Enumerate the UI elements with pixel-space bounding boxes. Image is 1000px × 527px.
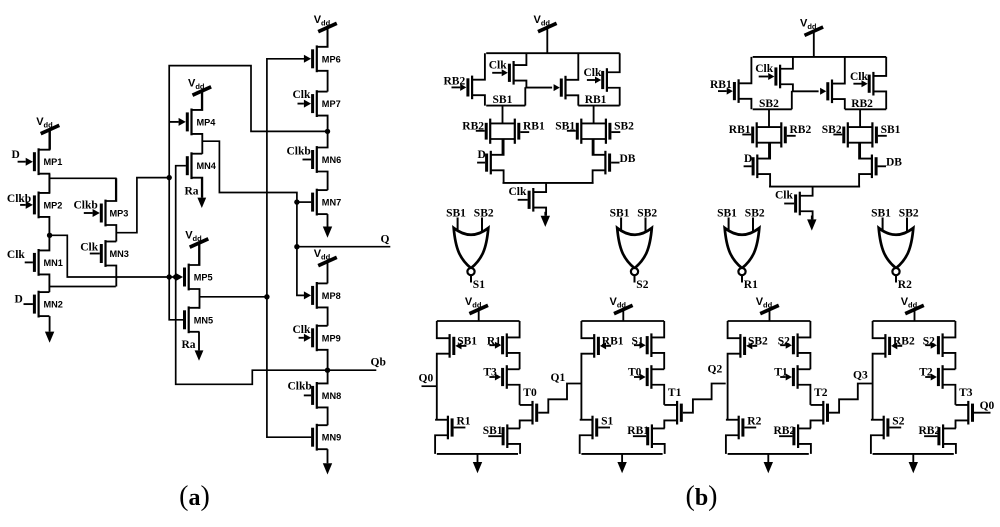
svg-text:Clkb: Clkb	[287, 146, 311, 158]
transistor MN2	[15, 291, 63, 318]
wire staircase to next stage	[829, 384, 872, 413]
svg-text:MN6: MN6	[322, 155, 341, 165]
wire output Q	[297, 246, 390, 248]
svg-text:SB2: SB2	[745, 207, 765, 219]
svg-text:SB1: SB1	[881, 124, 901, 136]
svg-text:S1: S1	[632, 335, 644, 347]
svg-text:MN2: MN2	[44, 300, 63, 310]
transistor RB1 (bottom-right NMOS)	[627, 424, 664, 454]
transistor S2 (bottom-left NMOS)	[871, 415, 905, 454]
svg-text:Q3: Q3	[853, 370, 868, 382]
transistor Clk tail NMOS	[509, 183, 547, 216]
svg-text:RB1: RB1	[729, 124, 751, 136]
transistor MP6	[304, 28, 341, 92]
wire cross gate lead	[792, 90, 819, 92]
svg-text:SB1: SB1	[457, 335, 477, 347]
junction bus2 / MP5 gate line	[173, 274, 178, 279]
transistor S2 (right PMOS)	[923, 321, 956, 369]
transistor RB2 (bottom-right NMOS)	[774, 424, 811, 454]
svg-text:T1: T1	[774, 367, 788, 379]
junction MP2/MN1 node	[47, 233, 52, 238]
transistor MP2	[7, 174, 63, 235]
svg-text:Clkb: Clkb	[7, 193, 31, 205]
svg-text:SB2: SB2	[822, 124, 842, 136]
NOR gate 3 (R1)	[717, 207, 765, 291]
transistor SB1 (left PMOS)	[437, 321, 477, 420]
svg-text:D: D	[12, 149, 20, 161]
transistor T2 (pass NMOS)	[811, 387, 830, 428]
wire bus2 vertical to Qb line	[176, 166, 377, 385]
transistor pair RB1/RB2	[729, 122, 812, 147]
wire stage top rail	[873, 320, 956, 322]
svg-text:SB1: SB1	[483, 425, 503, 437]
svg-text:RB1: RB1	[585, 94, 607, 106]
svg-text:DB: DB	[620, 153, 636, 165]
svg-text:MP8: MP8	[322, 291, 341, 301]
wire stage bottom rail	[873, 453, 954, 455]
svg-text:SB2: SB2	[748, 335, 768, 347]
wire latch top rail	[486, 52, 620, 54]
transistor D input NMOS	[477, 139, 504, 183]
wire Q0 input stub	[422, 385, 437, 387]
wire node RB2 line	[845, 98, 886, 110]
svg-text:Clk: Clk	[293, 89, 312, 101]
wire stage top rail	[437, 320, 520, 322]
svg-text:MN5: MN5	[194, 315, 213, 325]
svg-text:Clk: Clk	[80, 242, 99, 254]
ground below stage	[473, 454, 482, 473]
Ra output arrow below MN4	[185, 178, 207, 208]
svg-text:D: D	[15, 294, 23, 306]
junction MP5/MN5 node on bus3	[264, 294, 269, 299]
wire latch bottom rail	[503, 182, 594, 184]
power Vdd at latch	[800, 18, 823, 57]
transistor Clk tail NMOS	[775, 187, 813, 220]
transistor MP9	[293, 324, 341, 370]
transistor RB2 (left PMOS)	[873, 321, 915, 420]
label Q1	[551, 372, 566, 384]
svg-text:MN7: MN7	[322, 198, 341, 208]
svg-text:SB1: SB1	[871, 207, 891, 219]
label Q0	[419, 373, 434, 385]
transistor S2 (right PMOS)	[778, 321, 811, 369]
transistor MN3	[80, 240, 129, 286]
svg-text:Q: Q	[381, 233, 390, 245]
transistor MN5	[183, 306, 213, 333]
transistor Clk right PMOS	[850, 57, 886, 109]
svg-text:Clkb: Clkb	[288, 381, 312, 393]
svg-text:Q1: Q1	[551, 372, 566, 384]
svg-text:SB1: SB1	[610, 207, 630, 219]
power Vdd at MP8	[314, 248, 337, 283]
transistor MP4	[169, 91, 216, 154]
ground below MN7	[323, 214, 332, 238]
ground below MN9	[323, 449, 332, 474]
ground below stage	[617, 454, 626, 473]
transistor Clk left PMOS	[755, 57, 793, 91]
svg-text:SB2: SB2	[474, 207, 494, 219]
wire SB2 drop to pair	[768, 109, 770, 127]
transistor T3 (T PMOS)	[483, 365, 519, 405]
svg-text:DB: DB	[886, 157, 902, 169]
transistor Clk right PMOS	[584, 53, 620, 105]
power Vdd at stage	[901, 296, 924, 321]
wire MN1/MN2 node to MN3 source	[50, 286, 116, 288]
wire pair to DB transistor	[859, 143, 861, 159]
ground below tail	[541, 212, 550, 227]
svg-text:S2: S2	[636, 279, 648, 291]
svg-text:Q2: Q2	[708, 364, 723, 376]
svg-text:R2: R2	[747, 415, 761, 427]
wire staircase to next stage	[683, 384, 726, 413]
svg-text:S1: S1	[473, 279, 485, 291]
transistor T1 (pass NMOS)	[664, 387, 683, 428]
transistor pair SB2/SB1	[822, 122, 901, 147]
svg-text:RB2: RB2	[462, 121, 484, 133]
wire stage top rail	[581, 320, 664, 322]
svg-text:MP4: MP4	[197, 117, 217, 127]
junction bus1 / MP5 gate line	[167, 274, 172, 279]
wire stage top rail	[728, 320, 811, 322]
label Q	[381, 233, 390, 245]
wire MN7 gate	[297, 201, 311, 203]
transistor center cross PMOS	[554, 53, 579, 105]
svg-text:Ra: Ra	[185, 186, 199, 198]
svg-text:S1: S1	[601, 415, 613, 427]
transistor S1 (bottom-left NMOS)	[580, 415, 614, 454]
transistor DB input NMOS	[859, 143, 902, 187]
transistor MN7	[311, 189, 341, 216]
svg-text:RB2: RB2	[790, 124, 812, 136]
wire RB1 drop to pair	[593, 106, 595, 124]
svg-text:SB2: SB2	[759, 98, 779, 110]
svg-text:Q0: Q0	[419, 373, 434, 385]
svg-text:Ra: Ra	[182, 339, 196, 351]
svg-text:R1: R1	[744, 279, 758, 291]
transistor R2 (bottom-left NMOS)	[726, 415, 762, 454]
svg-text:Clk: Clk	[7, 249, 26, 261]
svg-text:RB1: RB1	[710, 79, 732, 91]
svg-text:MN8: MN8	[322, 391, 341, 401]
power Vdd at stage	[610, 296, 633, 321]
svg-text:MP2: MP2	[44, 200, 63, 210]
ground below stage	[764, 454, 773, 473]
svg-text:D: D	[744, 153, 752, 165]
ground below stage	[909, 454, 918, 473]
NOR gate 2 (S2)	[610, 207, 658, 291]
svg-text:MP5: MP5	[194, 273, 213, 283]
svg-text:Clk: Clk	[489, 60, 508, 72]
junction Qb / MP9-MN8 node	[325, 368, 330, 373]
transistor MP8	[304, 282, 341, 326]
svg-text:Q0: Q0	[980, 400, 995, 412]
power Vdd at MP4	[188, 78, 211, 110]
svg-text:Clk: Clk	[850, 71, 869, 83]
junction bus1 / MP3 branch	[167, 175, 172, 180]
wire RB2 drop to pair	[859, 109, 861, 127]
svg-text:Clkb: Clkb	[74, 200, 98, 212]
svg-text:SB1: SB1	[446, 207, 466, 219]
transistor T2 (T PMOS)	[919, 365, 955, 405]
power Vdd at MP5	[185, 230, 208, 266]
transistor MN6	[287, 131, 342, 190]
wire pair to D transistor	[502, 139, 504, 155]
svg-text:D: D	[478, 149, 486, 161]
svg-text:T2: T2	[919, 367, 933, 379]
transistor R1 (bottom-left NMOS)	[435, 415, 471, 454]
svg-text:T3: T3	[959, 387, 973, 399]
transistor DB input NMOS	[593, 139, 636, 183]
svg-text:RB2: RB2	[444, 76, 466, 88]
transistor R1 (right PMOS)	[487, 321, 520, 369]
svg-text:SB1: SB1	[555, 121, 575, 133]
wire MP2/MN1 node to MP5 gate	[50, 235, 180, 277]
label Q2	[708, 364, 723, 376]
svg-text:MN9: MN9	[322, 433, 341, 443]
svg-text:Clk: Clk	[293, 324, 312, 336]
wire stage bottom rail	[437, 453, 518, 455]
svg-text:T0: T0	[523, 387, 537, 399]
wire node RB1 line	[578, 94, 619, 106]
svg-text:SB1: SB1	[493, 94, 513, 106]
svg-text:Clk: Clk	[775, 190, 794, 202]
power Vdd at latch	[534, 14, 557, 53]
svg-text:R1: R1	[487, 335, 501, 347]
transistor T0 (T PMOS)	[628, 365, 664, 405]
svg-text:RB1: RB1	[627, 425, 649, 437]
wire pair to D transistor	[768, 143, 770, 159]
svg-text:MP1: MP1	[44, 157, 63, 167]
svg-text:Clk: Clk	[509, 186, 528, 198]
wire node SB2 line	[753, 91, 792, 110]
transistor pair RB2/RB1	[462, 119, 545, 144]
svg-text:RB1: RB1	[602, 335, 624, 347]
svg-text:RB2: RB2	[851, 98, 873, 110]
transistor MP3	[74, 178, 129, 241]
svg-text:Clk: Clk	[755, 63, 774, 75]
svg-text:MN1: MN1	[44, 258, 63, 268]
junction MN7 gate tap	[294, 199, 299, 204]
svg-text:MN3: MN3	[110, 249, 129, 259]
wire MP4/MN4 node branch to MN7 gate column	[202, 141, 305, 295]
svg-text:RB2: RB2	[919, 425, 941, 437]
wire MP5/MN5 node to bus3	[199, 296, 267, 298]
label Q3	[853, 370, 868, 382]
svg-text:S2: S2	[778, 335, 790, 347]
wire node SB1 line	[486, 87, 525, 106]
power Vdd at MP6	[314, 14, 337, 47]
junction MP7 source node	[325, 129, 330, 134]
svg-text:Qb: Qb	[371, 357, 386, 369]
junction Q node	[294, 244, 299, 249]
transistor MP7	[293, 89, 341, 131]
transistor MP1	[12, 130, 63, 194]
svg-text:(b): (b)	[685, 481, 717, 512]
svg-text:T0: T0	[628, 367, 642, 379]
svg-text:T3: T3	[483, 367, 497, 379]
transistor T0 (pass NMOS)	[520, 387, 539, 428]
svg-text:SB2: SB2	[899, 207, 919, 219]
Ra output arrow below MN5	[182, 332, 204, 361]
NOR gate 1 (S1)	[446, 207, 494, 291]
caption (b)	[685, 481, 717, 512]
svg-text:R2: R2	[898, 279, 912, 291]
wire cross gate lead	[525, 87, 552, 89]
power Vdd at stage	[465, 296, 488, 321]
transistor T1 (T PMOS)	[774, 365, 810, 405]
power Vdd at MP1	[36, 116, 59, 150]
svg-text:R1: R1	[457, 415, 471, 427]
wire pair to DB transistor	[593, 139, 595, 155]
svg-text:MP7: MP7	[322, 99, 341, 109]
svg-text:RB1: RB1	[523, 121, 545, 133]
transistor RB2 (outer left PMOS)	[444, 53, 485, 105]
label Qb	[371, 357, 386, 369]
transistor pair SB1/SB2	[555, 119, 634, 144]
transistor D input NMOS	[744, 143, 771, 187]
svg-text:S2: S2	[892, 415, 904, 427]
svg-text:SB1: SB1	[717, 207, 737, 219]
transistor RB2 (bottom-right NMOS)	[919, 424, 956, 454]
transistor SB1 (bottom-right NMOS)	[483, 424, 520, 454]
svg-text:MN4: MN4	[197, 161, 217, 171]
power Vdd at stage	[756, 296, 779, 321]
transistor MN8	[288, 370, 342, 425]
svg-text:(a): (a)	[179, 481, 210, 512]
wire T3 gate stub to Q0	[974, 400, 995, 413]
transistor T3 (pass NMOS)	[956, 387, 975, 428]
wire bus1 to MP3/MN3 node	[116, 178, 169, 233]
svg-text:MP9: MP9	[322, 333, 341, 343]
svg-text:T2: T2	[814, 387, 828, 399]
wire bus1 vertical with top run to MP7/MN6 node	[169, 66, 327, 320]
wire stage bottom rail	[728, 453, 809, 455]
wire stage bottom rail	[581, 453, 662, 455]
svg-text:RB2: RB2	[893, 335, 915, 347]
wire bus3 MP6 gate to MN9 gate	[267, 59, 311, 437]
ground below tail	[807, 216, 816, 231]
wire latch bottom rail	[769, 186, 860, 188]
transistor MN9	[311, 424, 341, 451]
transistor center cross PMOS	[820, 57, 845, 109]
wire MP1/MP2 node to MP3 drain	[50, 178, 116, 201]
svg-text:SB2: SB2	[614, 121, 634, 133]
wire SB1 drop to pair	[502, 106, 504, 124]
caption (a)	[179, 481, 210, 512]
ground below MN2	[45, 316, 54, 343]
transistor MN1	[7, 235, 63, 292]
svg-text:T1: T1	[668, 387, 682, 399]
transistor S1 (right PMOS)	[632, 321, 665, 369]
transistor SB2 (left PMOS)	[728, 321, 768, 420]
wire latch top rail	[753, 56, 887, 58]
svg-text:RB2: RB2	[774, 425, 796, 437]
NOR gate 4 (R2)	[871, 207, 919, 291]
transistor RB1 (outer left PMOS)	[710, 57, 751, 109]
svg-text:MP6: MP6	[322, 54, 341, 64]
svg-text:SB2: SB2	[637, 207, 657, 219]
svg-text:Clk: Clk	[584, 67, 603, 79]
wire staircase to next stage	[538, 384, 581, 413]
svg-text:S2: S2	[923, 335, 935, 347]
transistor MP5	[176, 243, 213, 309]
transistor MN4	[186, 152, 217, 197]
svg-text:MP3: MP3	[110, 209, 129, 219]
transistor RB1 (left PMOS)	[581, 321, 623, 420]
transistor Clk left PMOS	[489, 53, 527, 87]
